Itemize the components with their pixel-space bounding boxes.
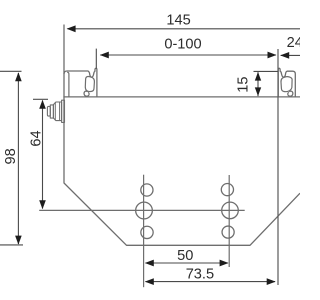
right rail profile foot curl [288, 91, 293, 96]
dimension 24 arrow [280, 52, 289, 59]
dimension 50 left arrow [145, 260, 154, 267]
left rail profile claw [88, 68, 97, 96]
right rail profile bead [281, 77, 292, 92]
dimension 64 line [42, 101, 44, 209]
dimension 15 top extension line [254, 70, 279, 72]
small hole bottom-right [222, 226, 234, 238]
plate top line / rail bottom [63, 96, 300, 98]
svg-text:0-100: 0-100 [164, 37, 201, 53]
knob step [50, 105, 53, 118]
plate outline [64, 25, 300, 246]
dimension 0-100 right arrow [268, 52, 277, 59]
dimension 98 bottom extension line [0, 244, 23, 246]
left rail profile inner wall [67, 72, 69, 96]
svg-text:145: 145 [166, 13, 190, 29]
knob flange [62, 100, 65, 122]
dimension 24 line [281, 54, 300, 56]
dimension 0-100 line [100, 54, 276, 56]
dimension 98 top extension line [0, 70, 22, 72]
dimension 50 right arrow [220, 260, 229, 267]
dimension 0-100 left extension line [95, 49, 97, 69]
dimension 145 arrow [67, 25, 76, 32]
svg-text:98: 98 [3, 148, 19, 164]
hole centerline vertical right [228, 175, 230, 267]
dimension 64 down arrow [39, 200, 46, 209]
knob body facet lines [55, 102, 59, 120]
small hole top-right [221, 184, 233, 196]
dimension 73.5 line [146, 281, 276, 283]
dimension 98 line [17, 73, 19, 244]
svg-text:15: 15 [236, 76, 252, 92]
hole centerline horizontal [39, 209, 245, 211]
dimension 50 line [146, 262, 228, 264]
dimension 15 line [257, 72, 259, 96]
dimension 0-100 left arrow [100, 52, 109, 59]
dimension 98 down arrow [15, 236, 22, 245]
knob cap [47, 106, 50, 116]
dimension 15 down arrow [255, 87, 261, 96]
dimension 73.5 left arrow [145, 278, 154, 285]
long right extension line x278 [277, 49, 279, 285]
small hole top-left [141, 184, 153, 196]
svg-text:24: 24 [287, 35, 300, 51]
left rail profile bead [85, 76, 94, 91]
dimension 15 up arrow [255, 72, 261, 81]
knob body [53, 102, 61, 121]
svg-text:73.5: 73.5 [186, 266, 214, 282]
svg-text:64: 64 [28, 130, 44, 146]
large hole left [136, 202, 153, 219]
dimension 64 up arrow [39, 100, 46, 109]
hole centerline vertical left [143, 175, 145, 288]
dimension 98 up arrow [15, 72, 22, 81]
left rail profile foot curl [84, 91, 89, 96]
svg-text:50: 50 [177, 248, 193, 264]
small hole bottom-left [141, 226, 153, 238]
dimension 73.5 right arrow [267, 278, 276, 285]
dimension 145 line [68, 28, 301, 30]
right rail profile claw and outline [278, 68, 295, 96]
left rail profile top edge [64, 71, 89, 74]
large hole right [222, 202, 239, 219]
dimension 64 top extension line [33, 98, 48, 100]
